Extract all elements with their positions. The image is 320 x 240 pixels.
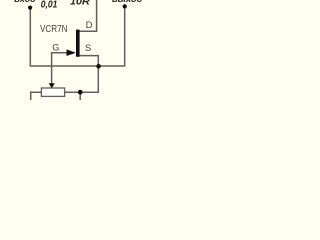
svg-text:выход: выход [112, 0, 143, 4]
svg-text:S: S [85, 43, 91, 54]
svg-text:D: D [86, 20, 93, 31]
svg-text:вход: вход [14, 0, 36, 4]
svg-text:VCR7N: VCR7N [40, 24, 68, 35]
svg-text:G: G [52, 43, 59, 53]
svg-text:10R: 10R [70, 0, 90, 7]
svg-text:0,01: 0,01 [41, 0, 58, 11]
